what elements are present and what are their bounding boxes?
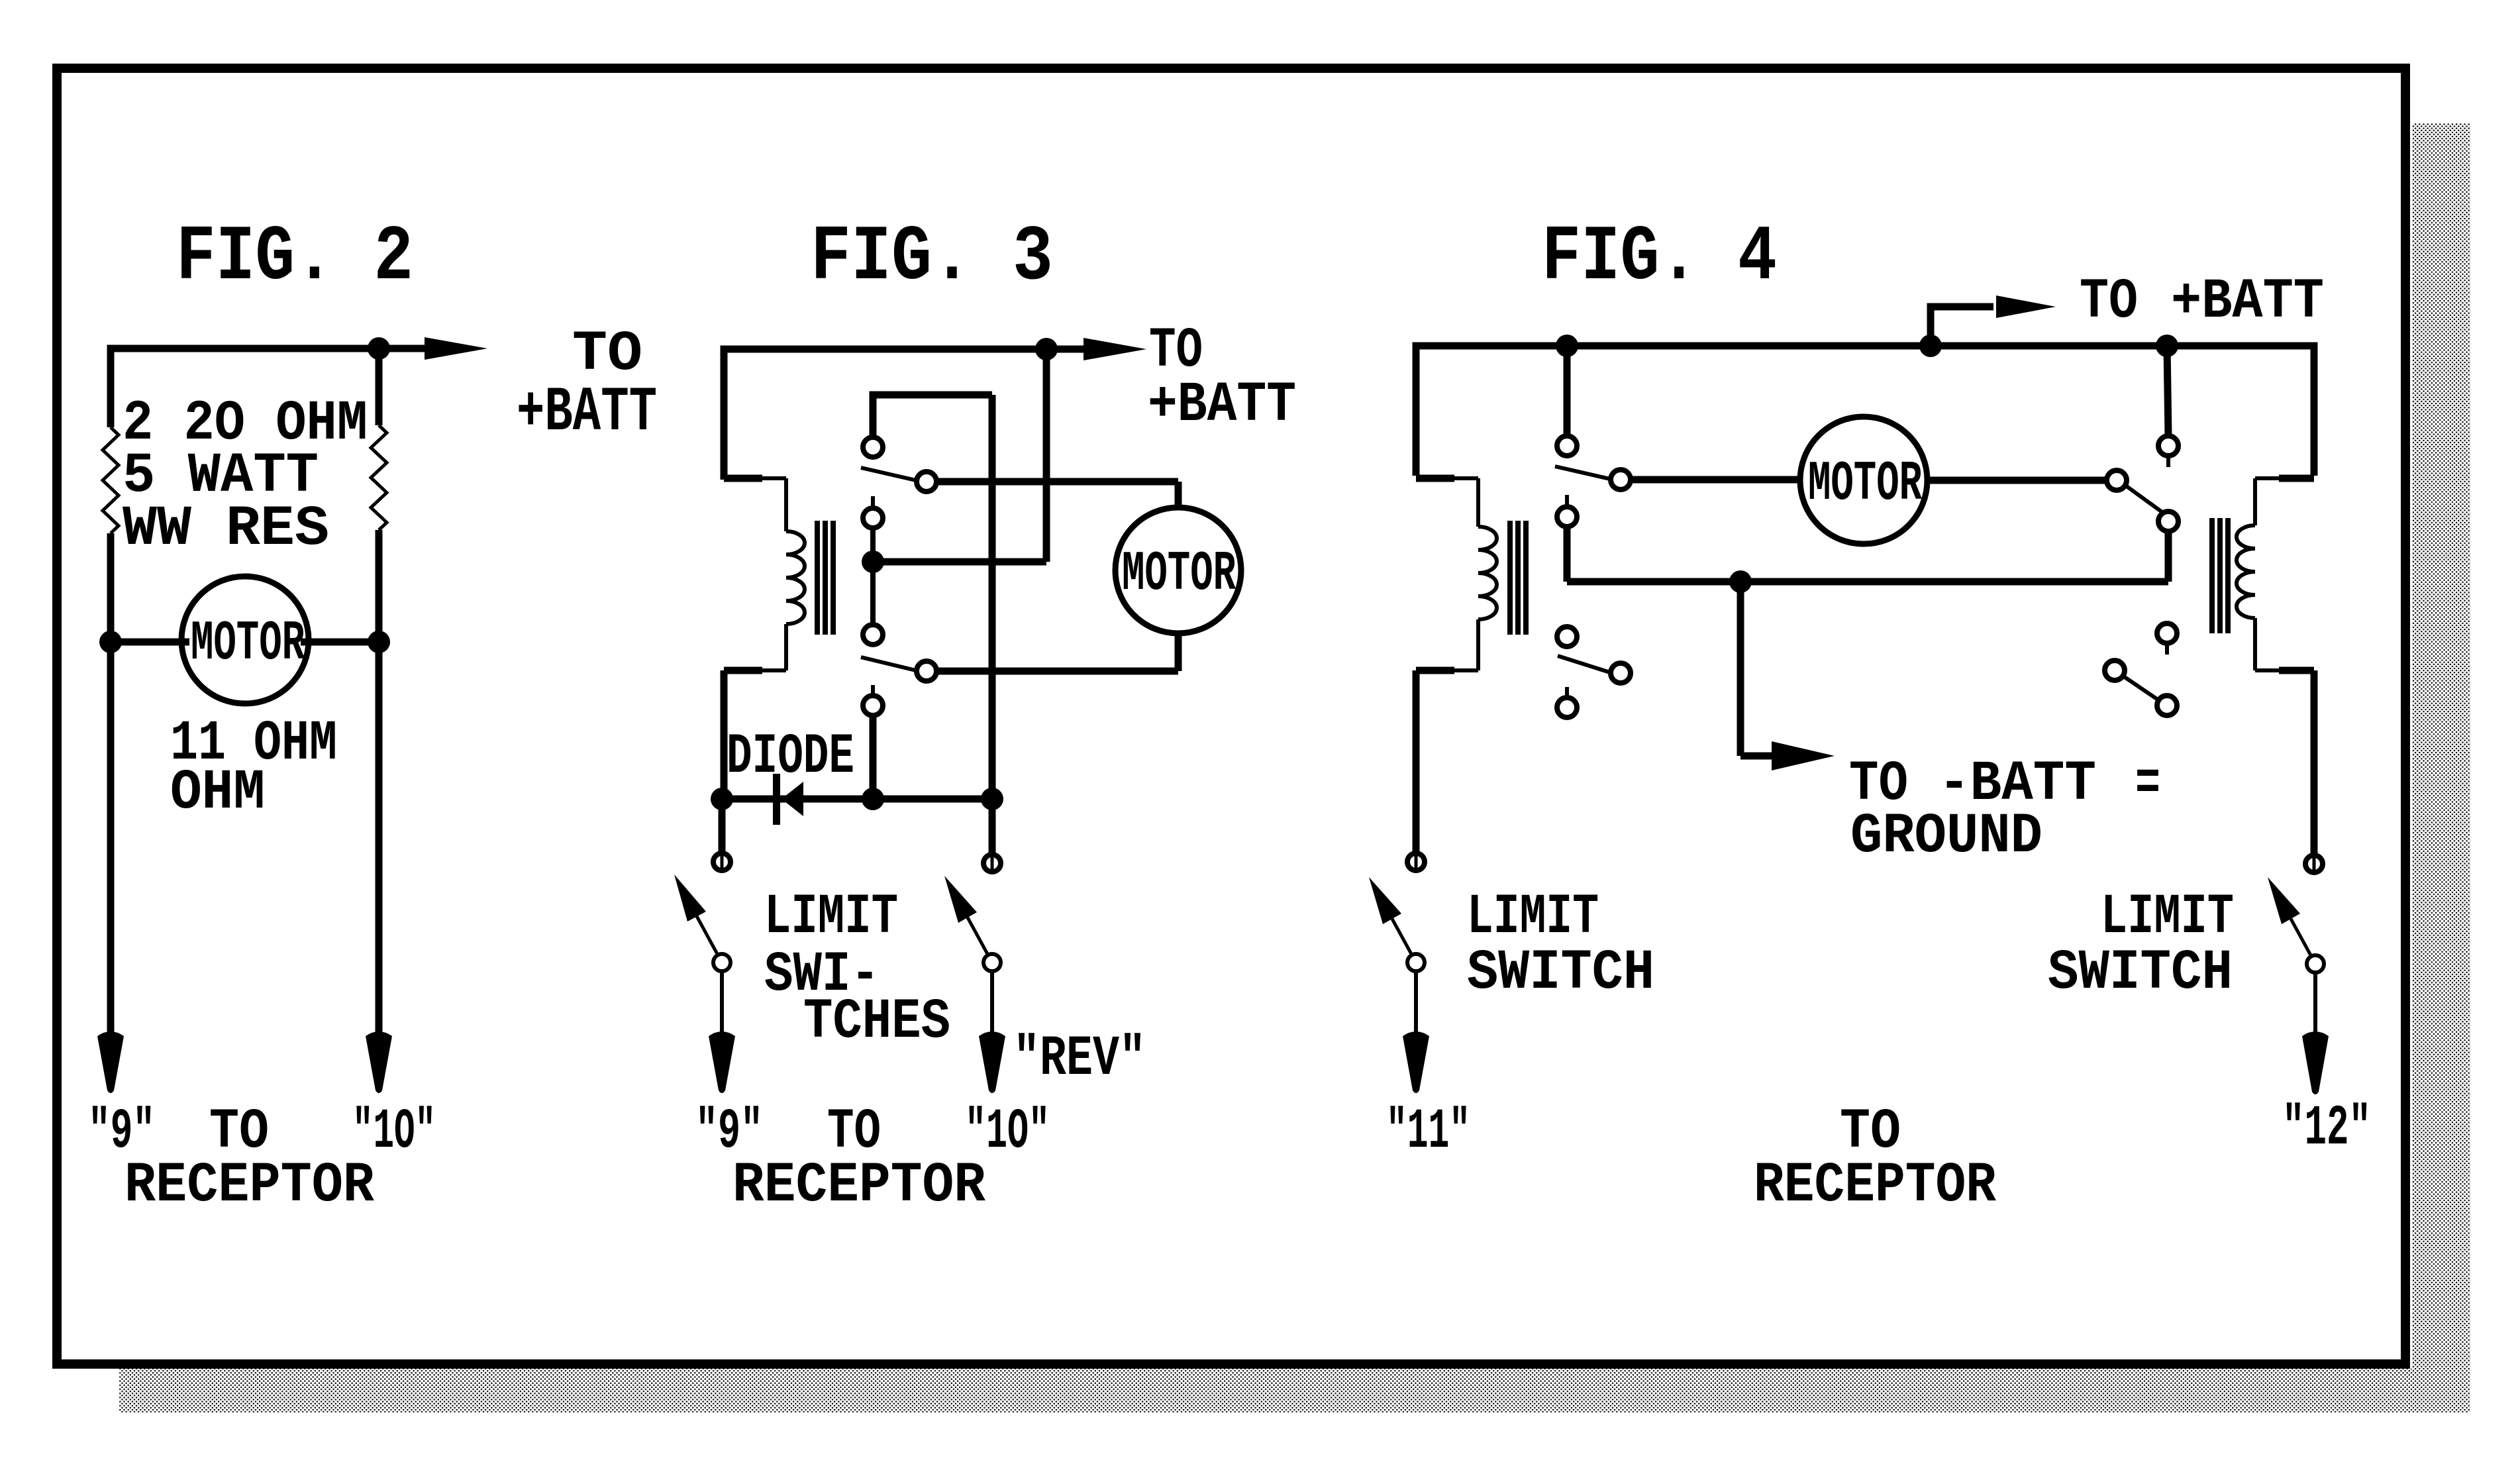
wire fig4 motor feed right: [1927, 477, 2107, 484]
wire fig4 right coil lead bottom: [2253, 618, 2257, 670]
wire fig3 common feed to batt: [873, 558, 1046, 566]
wire fig4 contact riser: [1564, 346, 1571, 437]
relay K3 core fig4 right: [2209, 518, 2215, 633]
junction fig4 top right node: [2156, 335, 2178, 357]
wire fig4 left coil lead bottom: [1476, 619, 1480, 670]
arrow to +BATT fig4: [1931, 307, 1993, 346]
svg-text:LIMIT: LIMIT: [2101, 885, 2234, 949]
svg-text:TCHES: TCHES: [803, 990, 950, 1054]
svg-text:″REV″: ″REV″: [1013, 1027, 1146, 1091]
relay K2 coil fig4 left: [1478, 527, 1497, 619]
contact blade upper fig3: [861, 468, 916, 480]
spare contact lower fig4 left: [1565, 687, 1569, 698]
wire fig4 right contact drop: [2165, 531, 2172, 582]
svg-text:OHM: OHM: [170, 761, 265, 825]
arrow to receptor 11: [1414, 971, 1418, 1033]
svg-text:=: =: [2135, 752, 2160, 816]
svg-text:DIODE: DIODE: [727, 725, 854, 789]
arrow to receptor 10 fig3: [990, 971, 994, 1033]
relay contact NO fig4 left: [1557, 436, 1577, 456]
svg-text:TO: TO: [2080, 270, 2138, 334]
junction fig4 top left node: [1556, 335, 1578, 357]
wire fig3 motor bottom feed: [936, 668, 1178, 675]
spare contact upper fig4 left: [1557, 627, 1577, 647]
relay contact pivot lower fig3: [863, 696, 883, 715]
spare contact lower fig4 right: [2157, 696, 2177, 715]
limit switch blade 10 REV: [944, 876, 977, 923]
terminal fig3 left: [713, 853, 731, 870]
wire fig4 top rail: [1416, 346, 2314, 476]
terminal fig3 right: [983, 855, 1001, 872]
wire fig2 right drop to receptor 10: [376, 642, 383, 1033]
junction fig4 ground node: [1729, 570, 1752, 593]
wire fig3 coil lead bottom: [784, 624, 788, 670]
junction fig3 top node: [1035, 338, 1058, 360]
wire fig2 left drop to receptor 9: [107, 642, 115, 1033]
relay armature stub lower fig3: [871, 685, 875, 696]
svg-text:RECEPTOR: RECEPTOR: [732, 1153, 985, 1218]
motor M1 fig2: [181, 576, 309, 704]
arrow to +BATT fig2: [379, 345, 430, 352]
wire fig3 armature chain: [870, 527, 876, 626]
wire fig4 right coil lead top: [2253, 478, 2257, 525]
junction fig3 common feed: [862, 551, 884, 573]
svg-text:MOTOR: MOTOR: [1808, 453, 1922, 516]
wire fig3 hook over contacts: [873, 395, 992, 437]
arrowhead to receptor 9 fig2: [97, 1031, 124, 1093]
junction fig3 diode row middle: [862, 788, 884, 810]
relay contact NC fig4 right: [2158, 511, 2178, 531]
svg-text:LIMIT: LIMIT: [764, 885, 898, 949]
svg-text:″12″: ″12″: [2282, 1096, 2371, 1161]
wire fig3 relay step top: [724, 475, 762, 482]
wire fig3 relay step bottom: [760, 668, 786, 672]
wire fig3 batt riser: [1043, 349, 1050, 562]
wire fig2 left rail mid: [107, 533, 115, 642]
spare contact blade fig4 left: [1558, 656, 1610, 672]
limit switch pivot 11: [1407, 954, 1425, 971]
contact blade fig4 left: [1555, 466, 1610, 479]
spare contact upper fig4 right: [2157, 623, 2177, 643]
wire fig3 cross riser: [989, 395, 996, 799]
junction fig2 motor left: [99, 631, 122, 653]
relay armature stub upper fig3: [871, 496, 875, 508]
wire fig2 motor row right: [301, 639, 379, 646]
limit switch pivot 9: [713, 954, 731, 971]
wire fig4 right relay step top: [2279, 475, 2314, 482]
wire fig2 right rail upper: [376, 348, 383, 425]
wire fig2 top rail: [111, 348, 379, 427]
wire fig3 left rail to diode row: [722, 796, 724, 803]
wire fig4 ground drop: [1737, 582, 1744, 756]
wire fig3 left terminal lead: [719, 799, 726, 855]
wire fig3 top rail: [724, 349, 1046, 480]
svg-text:+BATT: +BATT: [1148, 373, 1296, 437]
arrow to -BATT ground: [1740, 753, 1777, 760]
junction fig3 diode row left: [711, 788, 733, 810]
svg-text:LIMIT: LIMIT: [1467, 885, 1599, 949]
wire fig4 right rail lower: [2311, 670, 2318, 857]
relay K2 core fig4 left: [1507, 521, 1513, 635]
spare contact left fig4 right: [2105, 660, 2125, 680]
relay armature stub fig4 left: [1565, 495, 1569, 507]
wire fig4 motor feed left: [1631, 476, 1800, 484]
terminal fig4 right: [2305, 855, 2323, 872]
wire fig4 bottom rail: [1567, 578, 2168, 586]
wire fig3 right terminal lead: [989, 799, 996, 856]
relay contact common upper fig3: [917, 472, 936, 492]
wire fig3 diode row: [722, 796, 992, 803]
wire fig2 right rail mid: [376, 530, 383, 642]
relay contact NO lower fig3: [863, 625, 883, 645]
svg-text:WW RES: WW RES: [123, 497, 329, 561]
wire fig3 chain drop to diode row: [870, 715, 877, 799]
wire fig4 left relay step bottom: [1452, 668, 1478, 672]
arrow to +BATT fig3: [1046, 346, 1089, 353]
diode D1: [773, 774, 780, 825]
svg-text:SWITCH: SWITCH: [1467, 941, 1654, 1005]
wire fig4 right relay step bottom: [2255, 668, 2281, 672]
limit switch pivot 10: [983, 954, 1001, 971]
svg-text:FIG. 2: FIG. 2: [176, 214, 413, 302]
junction fig4 batt node: [1919, 335, 1942, 357]
relay K1 coil fig3: [786, 531, 805, 624]
spare contact middle fig4 left: [1611, 663, 1631, 683]
motor M2 fig3: [1115, 507, 1241, 633]
relay contact pivot fig4 left: [1557, 507, 1577, 527]
svg-text:MOTOR: MOTOR: [1122, 543, 1236, 606]
limit switch blade 11: [1369, 877, 1401, 924]
relay K1 core fig3: [815, 521, 820, 635]
wire fig4 left coil lead top: [1476, 478, 1480, 527]
wire fig3 motor top lead: [1175, 482, 1182, 509]
limit switch blade 12: [2268, 877, 2300, 924]
wire fig3 motor top feed: [936, 478, 1178, 486]
contact blade fig4 right: [2127, 486, 2163, 513]
wire fig4 left rail lower: [1413, 670, 1420, 855]
relay contact common fig4 left: [1611, 470, 1631, 490]
relay contact common fig4 right: [2107, 470, 2127, 490]
motor M3 fig4: [1800, 417, 1927, 544]
limit switch blade 9: [674, 874, 706, 922]
wire fig4 pivot drop: [1564, 527, 1571, 582]
resistor R1 20 OHM 5 WATT WW: [103, 427, 119, 533]
wire fig3 motor bottom lead: [1175, 632, 1182, 671]
arrow to receptor 12: [2313, 973, 2317, 1033]
svg-text:SWITCH: SWITCH: [2048, 941, 2233, 1005]
limit switch pivot 12: [2307, 955, 2324, 973]
arrow to receptor 9 fig3: [720, 971, 724, 1033]
wire fig2 motor row left: [111, 639, 189, 646]
svg-text:FIG. 4: FIG. 4: [1542, 214, 1777, 302]
svg-text:+BATT: +BATT: [517, 377, 657, 448]
wire fig3 left rail lower: [721, 670, 728, 799]
junction fig2 top-right node: [368, 337, 390, 360]
junction fig2 motor right: [368, 631, 390, 653]
relay contact NO upper fig3: [863, 437, 883, 457]
svg-text:MOTOR: MOTOR: [191, 613, 305, 676]
wire fig4 left relay step top: [1416, 475, 1454, 482]
junction fig3 diode row right: [981, 788, 1003, 810]
svg-text:FIG. 3: FIG. 3: [811, 214, 1053, 302]
svg-text:RECEPTOR: RECEPTOR: [125, 1153, 374, 1218]
arrowhead to receptor 10 fig2: [366, 1031, 392, 1093]
wire fig3 coil lead top: [784, 478, 788, 531]
svg-text:″11″: ″11″: [1386, 1100, 1470, 1164]
spare contact blade fig4 right: [2125, 677, 2158, 700]
resistor R2 20 OHM 5 WATT WW: [371, 425, 387, 530]
contact blade lower fig3: [861, 657, 916, 670]
wire fig4 right contact riser: [2167, 346, 2168, 436]
relay contact pivot upper fig3: [863, 508, 883, 528]
svg-text:+BATT: +BATT: [2171, 270, 2324, 334]
svg-text:RECEPTOR: RECEPTOR: [1754, 1153, 1996, 1218]
relay contact NO fig4 right: [2158, 436, 2178, 456]
relay contact common lower fig3: [917, 661, 936, 681]
relay K3 coil fig4 right: [2237, 525, 2255, 618]
terminal fig4 left: [1407, 853, 1425, 870]
svg-text:GROUND: GROUND: [1850, 804, 2042, 869]
